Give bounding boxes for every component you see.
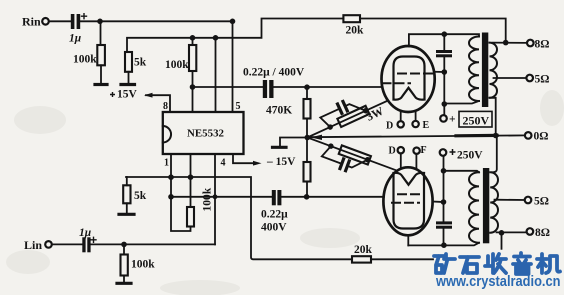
svg-text:100k: 100k [165,59,189,71]
character shi [460,257,479,273]
svg-text:www.crystalradio.cn: www.crystalradio.cn [435,274,560,290]
node 470K top junction [304,84,310,90]
node Lin junction [121,242,127,248]
svg-text:D: D [389,146,396,157]
wire R9 to ground [126,203,128,213]
svg-text:0.22μ: 0.22μ [261,209,288,221]
node 5ohm terminal lower [525,197,532,204]
op-amp U1 NE5532 body [163,112,244,154]
ground grid reference [273,146,287,149]
node center junction [305,135,311,141]
node pin F terminal [413,148,419,154]
ground under R2 [121,83,135,86]
wire junction down to R1 [100,21,102,45]
node secondary common junction [493,133,499,139]
wire pin5 vertical [232,21,234,112]
transformer T2 core [483,168,489,243]
node arrowhead on rail [311,135,323,140]
svg-text:5: 5 [236,101,241,112]
capacitor C4 1u lower input [82,237,96,252]
wire 0ohm rail [307,135,525,137]
wire secondary bottom to 0ohm rail [490,98,496,136]
wire secondary top to 0ohm rail lower [492,136,497,173]
wire to primary top lower [444,171,480,173]
node primary bottom junction [442,101,448,107]
wire R6 to y197 [306,182,308,197]
wire pin3 down to Lin rail [214,154,216,244]
capacitor C5 plate bypass upper [436,50,452,57]
node pin1 y177 junction [168,174,174,180]
svg-text:15V: 15V [117,89,138,101]
svg-text:0Ω: 0Ω [534,131,549,143]
wire pin2 down [190,154,192,177]
svg-text:5Ω: 5Ω [534,196,549,208]
wire 0ohm rail thick segment [456,134,497,138]
svg-text:E: E [423,120,430,131]
character kuang [434,254,455,273]
svg-text:– 15V: – 15V [266,156,296,168]
wire C3 to tube V2 grid [282,196,384,198]
node pin D terminal [398,121,404,127]
wire pin8 to +15V arrow [146,95,170,112]
svg-text:8: 8 [163,101,168,112]
wire V1 plate top [409,34,479,46]
svg-text:470K: 470K [266,105,292,117]
tube V1 anode structure [394,57,425,100]
node 8ohm lower junction [499,230,505,236]
tube V2 grid dashes upper [398,193,424,195]
node pin3 y197 junction [213,194,218,199]
node pin2 junction [188,174,194,180]
wire +250V down rail lower [443,156,445,221]
wire y197 wire [171,196,272,198]
tube V2 grid dashes lower [392,202,419,204]
svg-text:8Ω: 8Ω [535,227,550,239]
label +15V [110,92,115,97]
capacitor C6 plate bypass lower [436,221,452,228]
box 250V label frame [459,111,492,127]
wire divider rail y38 [127,19,343,53]
svg-text:400V: 400V [261,222,287,234]
watermark crystalradio logo [434,253,561,290]
wire stub down from 8ohm junction [501,233,503,249]
tube V1 grid dashes upper [398,73,434,75]
wire pin4 to -15V arrow [233,154,254,163]
tube V2 envelope [383,167,432,235]
tube V1 envelope [382,46,435,112]
wire secondary top to 8ohm terminal [493,42,528,44]
svg-text:20k: 20k [354,244,373,256]
node pin D terminal lower [398,147,404,153]
character yin [513,253,531,274]
transformer T2 secondary winding [490,172,498,232]
label +250V lower [450,149,456,155]
wire rail to primary bottom [444,101,479,104]
wire pin2 to R7 [190,177,192,207]
resistor R1 100k input [97,45,105,65]
svg-text:0.22μ / 400V: 0.22μ / 400V [243,67,305,79]
resistor R8 20k bottom [352,256,371,262]
ground under R10 [117,282,131,285]
wire V1 pin E stub [415,111,417,121]
node input junction [97,19,103,25]
svg-text:1: 1 [164,158,169,169]
wire C6 bottom stub [443,229,445,246]
svg-text:4: 4 [221,158,226,169]
wire Lin to C4 [52,243,82,245]
svg-text:100k: 100k [131,259,155,271]
svg-text:Lin: Lin [24,238,42,252]
resistor R4 20k feedback top [343,15,360,22]
node pin5 top junction [230,19,236,25]
capacitor C2 0.22u/400V [263,80,274,98]
character ji [537,254,560,273]
svg-text:20k: 20k [346,25,365,37]
character shou [485,254,506,273]
node R6 bottom junction [304,194,310,200]
node pin6 rail junction [213,35,219,41]
node -15V arrowhead [253,161,262,166]
wire 470K upper stub [306,87,308,99]
wire pin6 vertical [215,38,217,112]
wire R3 top stub [192,38,194,45]
svg-text:5Ω: 5Ω [535,74,550,86]
wire center to grid ground [280,138,307,147]
resistor R9 5k lower [123,177,130,203]
wire y177 rail to bottom rail [126,177,352,259]
wire V2 cathode down [407,235,409,246]
node +15V arrowhead [144,93,153,98]
node 8ohm terminal [527,40,534,47]
node plate rail cap junction [442,31,448,37]
svg-text:8Ω: 8Ω [535,39,550,51]
resistor-capacitor RC pair upper 3W [317,92,369,133]
node pin1 y197 junction [168,194,174,200]
resistor R6 470K lower [304,162,311,182]
wire 20k to right end [371,258,433,260]
tube V1 grid dashes lower [383,82,411,84]
node R3 top junction [190,35,196,41]
wire 5ohm tap upper [494,77,527,79]
svg-text:250V: 250V [463,114,490,128]
wire center to 470K lower [306,138,308,163]
svg-text:250V: 250V [457,150,483,162]
wire junction to R10 [123,244,125,254]
svg-text:5k: 5k [134,190,147,202]
wire C5 bottom to +250V [443,57,445,115]
transformer T2 primary winding [469,172,479,243]
transformer T1 secondary winding [490,43,498,98]
wire R2 to ground [128,72,130,84]
svg-text:1μ: 1μ [79,227,92,239]
node 8ohm feedback junction [503,40,509,46]
tube V2 anode structure [394,173,425,229]
wire V2 pin D stub [400,154,402,168]
wire V2 pin F stub [415,154,417,168]
wire 20k to output transformer 8ohm [360,19,506,43]
wire op-amp output y87 [193,86,263,88]
wire 5ohm tap lower [495,199,525,201]
capacitor C1 1u input [71,14,87,29]
wire 8ohm lower lead [497,231,527,233]
wire V1 pin D stub [400,111,402,121]
resistor R3 100k [189,45,196,71]
ground under R1 [95,83,107,86]
resistor R10 100k lower input [121,255,128,276]
node Rin terminal [42,18,49,25]
node 5ohm terminal upper [526,75,533,82]
svg-text:1μ: 1μ [69,33,82,45]
wire diagonal to V2 grid [307,138,397,171]
node cathode cap junction [441,242,447,248]
svg-text:100k: 100k [73,54,97,66]
transformer T1 primary winding [469,37,479,102]
wire plate to rail lower [433,201,444,204]
node pin7 output junction [190,84,196,90]
node +250V terminal upper [440,115,447,122]
wire cathode rail [408,243,479,246]
wire R3 to pin7 [192,71,194,112]
svg-text:100k: 100k [202,187,214,211]
wire grid to rail [434,71,444,73]
node pin E terminal [412,121,418,127]
svg-text:D: D [386,121,393,132]
wire C5 top stub [443,34,445,50]
wire C2 to tube V1 grid [274,86,383,88]
ground under R9 [119,213,134,216]
svg-text:F: F [421,145,427,156]
node plate junction lower [441,199,447,205]
resistor R7 100k feedback [187,207,194,227]
resistor-capacitor RC pair lower [319,140,371,179]
node Lin terminal [45,241,52,248]
svg-text:5k: 5k [134,57,147,69]
wire R10 to ground [123,276,125,283]
resistor R2 5k [125,52,132,72]
wire Lin rail [91,243,215,245]
op-amp notch [163,126,171,143]
wire R5 to center node [306,119,308,138]
resistor R5 470K upper [304,99,311,119]
node grid rail junction [442,69,448,75]
svg-text:+: + [449,114,456,126]
node 8ohm terminal lower [527,228,534,235]
capacitor C3 0.22u/400V lower [272,190,282,205]
wire diagonal to V1 grid [307,101,388,138]
node 0ohm terminal [525,132,532,139]
node primary top junction lower [441,168,447,174]
transformer T1 core [482,33,488,108]
wire R1 to ground [100,65,102,83]
wire input top rail to pin5 [80,20,232,22]
svg-text:NE5532: NE5532 [187,129,224,140]
svg-text:Rin: Rin [22,15,41,29]
wire Rin to C1 [49,20,71,22]
wire pin1 down and feedback loop [171,154,191,231]
node +250V terminal lower [440,149,447,156]
